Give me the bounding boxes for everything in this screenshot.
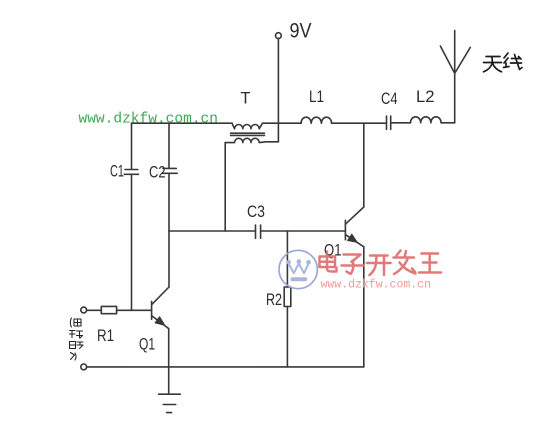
- wire C3 node line (collector node to C3): [169, 230, 255, 232]
- inductor L2: [411, 117, 442, 123]
- label input terminal note (vertical Chinese): [70, 318, 84, 360]
- ground: [159, 394, 181, 412]
- capacitor C2 branch wire upper: [168, 123, 170, 167]
- svg-text:L2: L2: [416, 87, 435, 106]
- wire L1 to C4 (through Q2 collector node): [332, 122, 387, 124]
- transformer T secondary winding: [225, 138, 278, 142]
- transistor Q1 emitter arrow: [155, 317, 164, 325]
- capacitor C1 branch wire upper: [131, 123, 133, 168]
- transistor Q2 base bar: [344, 220, 346, 239]
- svg-text:C2: C2: [149, 163, 166, 182]
- svg-text:R2: R2: [266, 290, 282, 309]
- watermark red brand 电子开发王: [320, 251, 442, 276]
- wire C1 to base node: [131, 175, 133, 310]
- wire Q2 collector up to rail: [363, 123, 365, 207]
- wire L2 to antenna: [441, 122, 455, 124]
- label 天线 (antenna): [484, 53, 523, 72]
- wire Q1 emitter to ground: [168, 329, 170, 395]
- svg-text:9V: 9V: [290, 20, 312, 43]
- antenna: [440, 30, 470, 122]
- watermark logo circle: [279, 250, 317, 288]
- wire 9V feed down: [277, 39, 279, 142]
- capacitor C4: [387, 116, 391, 129]
- wire C3 to Q2 base: [261, 230, 346, 232]
- transformer T core bars: [231, 133, 265, 135]
- svg-text:www.dzkfw.com.cn: www.dzkfw.com.cn: [321, 279, 432, 292]
- capacitor C3: [256, 225, 261, 238]
- svg-text:L1: L1: [309, 87, 324, 106]
- wire bottom rail: [87, 366, 364, 368]
- svg-text:T: T: [241, 89, 251, 108]
- transistor Q2 collector stroke: [345, 207, 363, 224]
- wire terminal to R1: [87, 309, 102, 311]
- wire Q1 collector up to C3 node: [168, 231, 170, 287]
- input terminal upper: [81, 307, 87, 313]
- transistor Q2 emitter stroke: [345, 235, 363, 247]
- inductor L1: [301, 117, 332, 123]
- transistor Q1 base bar: [151, 301, 153, 319]
- supply terminal 9V: [276, 33, 282, 39]
- wire R1 to Q1 base: [117, 309, 152, 311]
- capacitor C1: [124, 170, 138, 175]
- wire Q2 emitter down to bottom rail: [363, 247, 365, 367]
- wire top rail (transformer to L1): [263, 122, 302, 124]
- svg-text:www.dzkfw.com.cn: www.dzkfw.com.cn: [79, 112, 219, 128]
- transistor Q1 emitter stroke: [152, 316, 169, 329]
- capacitor C2: [162, 168, 177, 173]
- svg-text:C1: C1: [110, 162, 124, 181]
- wire R2 to bottom rail: [286, 307, 288, 367]
- svg-text:C4: C4: [381, 89, 398, 108]
- wire secondary left lead down to C3 node: [224, 143, 226, 231]
- svg-text:Q1: Q1: [139, 335, 155, 354]
- watermark logo W crown: [286, 259, 311, 281]
- wire C4 to L2: [391, 122, 411, 124]
- wire top rail left (C1 top to transformer): [132, 122, 233, 124]
- resistor R2: [284, 287, 291, 307]
- svg-text:C3: C3: [247, 202, 265, 221]
- resistor R1: [101, 306, 116, 313]
- wire R2 branch down: [286, 231, 288, 287]
- wire C2 to collector node: [168, 174, 170, 231]
- input terminal lower: [81, 364, 87, 370]
- transistor Q1 collector stroke: [152, 287, 169, 305]
- svg-text:R1: R1: [97, 326, 114, 345]
- transformer T primary winding: [232, 123, 263, 129]
- transistor Q2 emitter arrow: [348, 234, 357, 242]
